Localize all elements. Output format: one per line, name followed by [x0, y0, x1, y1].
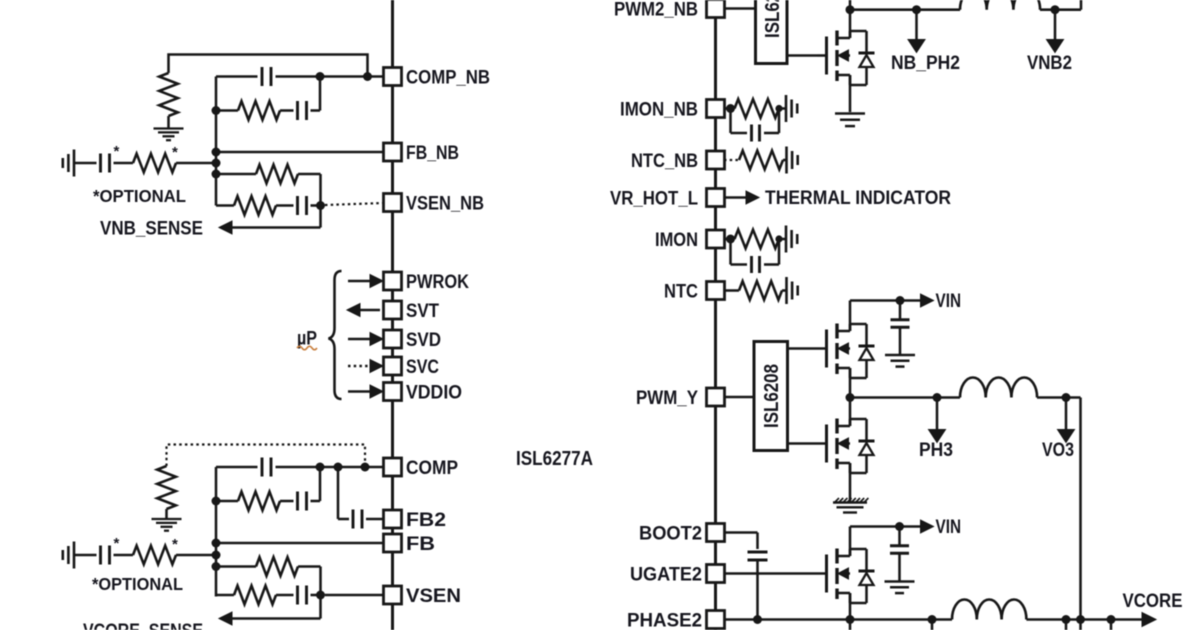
- node dot NB_PH2: [912, 5, 921, 14]
- node dot IMON: [724, 235, 735, 244]
- node dot phase Y at Q2: [846, 393, 855, 402]
- wire COMP_NB node horizontal: [216, 75, 384, 78]
- svg-text:ISL6208: ISL6208: [761, 364, 783, 428]
- svg-text:PH3: PH3: [919, 440, 953, 461]
- svg-text:*OPTIONAL: *OPTIONAL: [92, 574, 183, 594]
- node dot A at R2 branch: [212, 106, 221, 115]
- svg-text:ISL6208: ISL6208: [762, 0, 784, 38]
- node dot on COMP wire at C6 branch: [316, 463, 325, 472]
- svg-text:BOOT2: BOOT2: [639, 524, 702, 545]
- resistor R5 (VSEN_NB series): [216, 196, 276, 215]
- svg-text:PWROK: PWROK: [406, 272, 469, 293]
- asterisk on C3: [114, 143, 120, 160]
- svg-text:*: *: [114, 535, 120, 552]
- driver U3 ISL6208: [754, 342, 788, 451]
- svg-text:FB2: FB2: [406, 510, 446, 531]
- svg-text:VIN: VIN: [936, 291, 962, 312]
- label VO3: [1042, 440, 1074, 461]
- node dot IMON_NB: [724, 104, 735, 113]
- node dot VIN rail phase 2: [895, 522, 904, 531]
- arrow VO3 (down): [1058, 398, 1075, 443]
- pin COMP: [384, 458, 459, 479]
- arrow VNB2 (down): [1047, 10, 1064, 53]
- label *OPTIONAL (bottom): [92, 574, 183, 594]
- svg-text:*: *: [172, 144, 178, 161]
- arrow VR_HOT_L thermal indicator: [724, 191, 759, 204]
- wire Q1 drain to top rail: [849, 0, 852, 38]
- node dot on COMP_NB wire at R1 top branch: [363, 72, 372, 81]
- capacitor C5 (COMP series): [262, 458, 271, 477]
- driver U2 label ISL6208 (vertical): [762, 0, 784, 38]
- wire R8 to node C: [176, 554, 216, 557]
- wire UGATE2 to Q4 gate: [724, 572, 827, 575]
- pin SVD: [384, 330, 442, 351]
- svg-text:NB_PH2: NB_PH2: [891, 53, 960, 74]
- ground below C15: [885, 582, 915, 594]
- svg-text:NTC: NTC: [664, 282, 698, 303]
- pin UGATE2: [630, 565, 725, 586]
- inductor L2 phase Y: [960, 378, 1037, 398]
- pin SVC: [384, 357, 440, 378]
- wire Q3 source to ground: [849, 463, 852, 502]
- label VCORE_SENSE (clipped at bottom): [83, 621, 203, 630]
- wire NB top rail: [850, 8, 960, 11]
- label *OPTIONAL (top): [93, 186, 186, 206]
- svg-text:VCORE: VCORE: [1123, 591, 1183, 612]
- arrow into VDDIO: [348, 385, 383, 398]
- capacitor C7 in series with R7: [280, 467, 320, 511]
- wire node D vertical (R9/R10 right): [319, 567, 322, 619]
- asterisk on R8: [172, 536, 178, 553]
- wire top loop from R1 to COMP_NB: [169, 55, 368, 77]
- arrow VCORE (right): [1142, 613, 1156, 627]
- capacitor C1 (COMP_NB series): [262, 67, 271, 86]
- node dot on COMP wire at FB2 branch: [334, 463, 343, 472]
- resistor R13 IMON: [735, 230, 787, 249]
- wire phase Y rail: [850, 396, 960, 399]
- node dot R11 right: [775, 105, 782, 112]
- svg-text:COMP_NB: COMP_NB: [406, 68, 490, 89]
- ground right of R11: [786, 95, 797, 122]
- node dot on COMP_NB wire at C2 branch: [316, 72, 325, 81]
- label NB_PH2: [891, 53, 960, 74]
- node dot VCORE cap 2: [1107, 615, 1116, 624]
- wire stub below VCORE cap 2: [1110, 620, 1113, 630]
- wire stub below Q4 node: [849, 620, 852, 630]
- pin IMON_NB: [620, 100, 725, 121]
- capacitor C13 VIN decoupling: [891, 301, 910, 355]
- wire Q1 source to ground: [849, 75, 852, 112]
- node dot VO3: [1062, 393, 1071, 402]
- svg-text:VNB2: VNB2: [1027, 53, 1072, 74]
- pin PWROK: [384, 272, 470, 293]
- resistor R6 to ground: [157, 466, 176, 518]
- resistor R4 (VSEN_NB top parallel): [216, 165, 321, 184]
- label PH3: [919, 440, 953, 461]
- label VNB_SENSE: [100, 219, 203, 240]
- resistor R10 (VSEN series): [216, 586, 276, 605]
- svg-text:FB: FB: [406, 534, 435, 555]
- pin VR_HOT_L: [610, 189, 725, 210]
- transistor Q1 NB high-side MOSFET: [827, 31, 875, 86]
- svg-text:FB_NB: FB_NB: [406, 143, 459, 164]
- wire stub below VCORE cap 1: [1065, 620, 1068, 630]
- svg-text:PWM_Y: PWM_Y: [636, 388, 698, 409]
- node dot PHASE2 at C14: [753, 615, 762, 624]
- node dot PHASE2 at Q4: [846, 615, 855, 624]
- ground below R1: [154, 129, 184, 141]
- capacitor C9 optional: [101, 546, 110, 565]
- brace for uP signals: [329, 271, 342, 399]
- transistor Q2 high-side MOSFET phase Y: [827, 324, 875, 379]
- node dot C optional row: [212, 551, 221, 560]
- pin FB: [384, 534, 436, 555]
- pin NTC: [664, 282, 725, 303]
- pin VSEN: [384, 586, 462, 607]
- svg-text:NTC_NB: NTC_NB: [631, 151, 698, 172]
- wire U3 to Q2 gate: [788, 347, 827, 350]
- ground left of optional input C9: [63, 542, 74, 569]
- resistor R14 NTC: [739, 281, 787, 300]
- arrow VIN (phase Y): [900, 294, 934, 307]
- svg-text:COMP: COMP: [406, 458, 458, 479]
- wire VO3 rail down to VCORE: [1079, 398, 1082, 630]
- wire R3 to node A: [176, 162, 216, 165]
- node dot VIN rail Y: [896, 296, 905, 305]
- wire L3 to VCORE arrow: [1026, 618, 1146, 621]
- wire C9 to R8: [114, 554, 134, 557]
- arrow VCORE_SENSE (left): [219, 612, 321, 625]
- spellcheck squiggle under uP: [297, 346, 317, 350]
- wire dotted C4 to VSEN_NB pin: [325, 203, 384, 205]
- pin PHASE2: [627, 611, 725, 630]
- wire L2 to VO3 corner: [1037, 396, 1081, 399]
- capacitor C3 optional: [101, 154, 110, 173]
- wire NTC pin to R14: [724, 289, 739, 292]
- label VNB2: [1027, 53, 1072, 74]
- wire BOOT2 to bootstrap cap: [724, 533, 758, 550]
- ground below C13: [885, 355, 915, 367]
- ground right of R12: [787, 147, 798, 174]
- label THERMAL INDICATOR: [765, 188, 951, 209]
- wire FB: [212, 539, 385, 548]
- arrow into SVC (dotted): [348, 360, 383, 373]
- asterisk on R3: [172, 144, 178, 161]
- resistor R7 (COMP lag): [216, 492, 280, 511]
- wire Q2 source to phase node: [849, 368, 852, 398]
- svg-text:PWM2_NB: PWM2_NB: [614, 0, 698, 21]
- resistor R12 NTC_NB: [739, 151, 787, 170]
- wire Q2 drain to VIN rail: [850, 301, 900, 332]
- capacitor C12 parallel IMON: [731, 239, 780, 273]
- arrow out of SVT: [347, 304, 380, 317]
- wire COMP node horizontal: [216, 466, 384, 469]
- wire node B vertical (R4/R5 right): [319, 174, 322, 228]
- svg-text:VO3: VO3: [1042, 440, 1074, 461]
- svg-text:*: *: [114, 143, 120, 160]
- svg-text:VIN: VIN: [936, 517, 962, 538]
- node dot PHASE2 mid: [928, 615, 937, 624]
- pin VSEN_NB: [384, 194, 485, 215]
- svg-text:IMON_NB: IMON_NB: [620, 100, 698, 121]
- pin SVT: [384, 301, 440, 322]
- wire left vertical node A (FB_NB net): [215, 77, 218, 206]
- svg-text:VNB_SENSE: VNB_SENSE: [100, 219, 203, 240]
- svg-text:VSEN_NB: VSEN_NB: [406, 194, 484, 215]
- node dot NB rail at Q1: [846, 5, 855, 14]
- transistor Q4 high-side MOSFET phase 2: [827, 549, 875, 604]
- node dot C at R9 branch: [212, 562, 221, 571]
- arrow NB_PH2 (down): [908, 10, 925, 53]
- IC U1 ISL6277A right edge: [714, 0, 717, 630]
- wire PHASE2 rail: [724, 618, 952, 621]
- capacitor C2 in series with R2: [280, 77, 320, 121]
- svg-text:PHASE2: PHASE2: [627, 611, 702, 630]
- svg-text:VR_HOT_L: VR_HOT_L: [610, 189, 698, 210]
- capacitor C8 (FB2): [353, 510, 384, 529]
- pin VDDIO: [384, 383, 463, 404]
- capacitor C15 VIN decoupling: [890, 527, 909, 581]
- node dot on COMP wire at R6 top branch: [361, 463, 370, 472]
- IC U1 ISL6277A left edge: [391, 0, 394, 630]
- pin BOOT2: [639, 524, 725, 545]
- svg-text:SVD: SVD: [406, 330, 441, 351]
- wire dotted top loop from R6 to COMP: [167, 445, 366, 468]
- resistor R2 (COMP_NB lag): [216, 101, 280, 120]
- wire U2 to Q1 gate: [787, 54, 827, 57]
- arrow into PWROK: [348, 275, 383, 288]
- svg-text:UGATE2: UGATE2: [630, 565, 702, 586]
- driver U2 ISL6208 (top cropped): [756, 0, 788, 64]
- node dot B at C4: [316, 201, 325, 210]
- capacitor C11 parallel IMON_NB: [731, 109, 780, 142]
- wire left vertical node C (FB net): [215, 467, 218, 597]
- wire PWM_Y to driver U3: [724, 396, 754, 399]
- arrow VIN (phase 2): [900, 520, 934, 533]
- svg-text:VSEN: VSEN: [406, 586, 461, 607]
- svg-text:IMON: IMON: [655, 230, 698, 251]
- pin FB_NB: [384, 143, 460, 164]
- wire gnd to C9: [74, 554, 97, 557]
- pin NTC_NB: [631, 151, 725, 172]
- label VCORE: [1123, 591, 1183, 612]
- ground right of R14: [787, 277, 798, 304]
- resistor R3 optional: [133, 154, 176, 173]
- capacitor C10 in series with R10: [276, 586, 321, 605]
- node dot R13 right: [775, 235, 782, 242]
- capacitor C4 in series with R5: [276, 196, 321, 215]
- svg-text:VDDIO: VDDIO: [406, 383, 462, 404]
- pin IMON: [655, 230, 725, 251]
- svg-text:*: *: [172, 536, 178, 553]
- wire dotted NTC_NB pin to R12: [724, 159, 739, 161]
- svg-text:*OPTIONAL: *OPTIONAL: [93, 186, 186, 206]
- driver U3 label ISL6208 (vertical): [761, 364, 783, 428]
- capacitor C14 bootstrap: [748, 552, 768, 560]
- node dot VCORE at VO3 rail: [1076, 615, 1085, 624]
- arrow into SVD: [348, 333, 383, 346]
- pin PWM_Y: [636, 388, 725, 409]
- label uP: [297, 329, 317, 350]
- svg-text:SVT: SVT: [406, 301, 439, 322]
- pin FB2: [384, 510, 447, 531]
- svg-text:THERMAL INDICATOR: THERMAL INDICATOR: [765, 188, 951, 209]
- wire FB2 branch: [338, 467, 349, 519]
- wire L1 to VNB2 corner: [1040, 0, 1081, 10]
- wire PWM2_NB to driver U2: [724, 7, 756, 10]
- wire FB_NB: [212, 148, 385, 157]
- node dot A optional row: [212, 159, 221, 168]
- ground left of optional input C3: [63, 150, 74, 177]
- resistor R11 IMON_NB: [735, 99, 787, 118]
- node dot VCORE cap 1: [1062, 615, 1071, 624]
- svg-text:ISL6277A: ISL6277A: [516, 448, 593, 470]
- node dot PH3: [933, 393, 942, 402]
- wire C14 to PHASE2 rail: [756, 560, 759, 620]
- wire gnd to C3: [74, 162, 97, 165]
- arrow PH3 (down): [929, 398, 946, 443]
- wire phase node to Q3 drain: [849, 398, 852, 427]
- ground right of R13: [786, 226, 797, 253]
- asterisk on C9: [114, 535, 120, 552]
- pin COMP_NB: [384, 68, 491, 89]
- transistor Q3 low-side MOSFET phase Y: [827, 419, 875, 474]
- pin PWM2_NB: [614, 0, 725, 21]
- wire U3 to Q3 gate: [788, 442, 827, 445]
- wire C10 to VSEN pin: [325, 594, 384, 597]
- svg-text:SVC: SVC: [406, 357, 439, 378]
- resistor R9 (VSEN top parallel): [216, 557, 321, 576]
- node dot A at R4 branch: [212, 170, 221, 179]
- svg-text:VCORE_SENSE: VCORE_SENSE: [83, 621, 203, 630]
- inductor L3 phase 2: [952, 599, 1026, 619]
- wire stub below mid node: [931, 620, 934, 630]
- wire C3 to R3: [114, 162, 134, 165]
- resistor R1 to ground: [159, 73, 178, 128]
- label VIN (phase 2): [936, 517, 962, 538]
- label VIN (phase Y): [936, 291, 962, 312]
- wire Q4 drain to VIN rail: [850, 527, 900, 557]
- node dot VNB2: [1051, 5, 1060, 14]
- IC U1 part number label ISL6277A: [516, 448, 593, 470]
- arrow VNB_SENSE (left): [219, 221, 321, 234]
- node dot D at C10: [316, 591, 325, 600]
- wire Q4 source to PHASE2 rail: [849, 593, 852, 620]
- resistor R8 optional: [133, 546, 176, 565]
- node dot C at R7 branch: [212, 497, 221, 506]
- ground at Q3 source (hatched): [833, 498, 868, 513]
- ground at Q1 source: [835, 114, 865, 127]
- inductor L1 NB (cropped top): [960, 0, 1040, 10]
- ground below R6: [152, 519, 182, 531]
